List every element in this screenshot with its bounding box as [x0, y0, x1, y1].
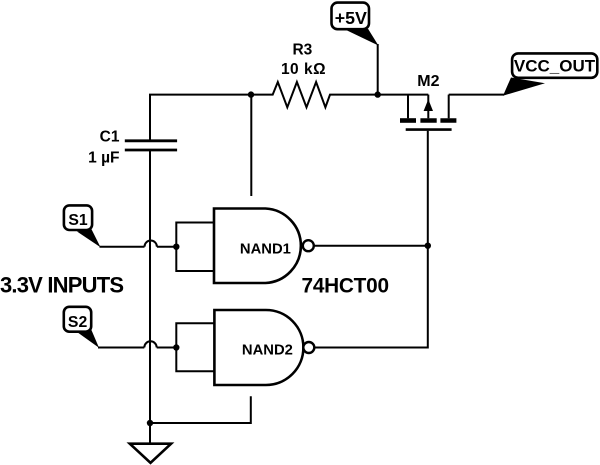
input flag S1	[64, 205, 101, 247]
drain terminal	[448, 95, 450, 119]
net flag VCC_OUT	[503, 53, 597, 95]
wire S2 to NAND2 inputs (with hop over vertical wire)	[98, 341, 176, 347]
NAND gate NAND1	[214, 209, 314, 284]
svg-text:1 µF: 1 µF	[88, 149, 119, 166]
svg-text:S2: S2	[68, 314, 88, 331]
wire ground node to ground symbol	[149, 423, 151, 444]
channel bars	[400, 118, 416, 123]
MOSFET M2	[378, 95, 457, 130]
wire NAND2 output up to gate node	[314, 246, 427, 348]
junction at ground node	[147, 420, 153, 426]
svg-text:10 kΩ: 10 kΩ	[281, 61, 326, 78]
body terminal with arrow	[427, 95, 429, 119]
NAND1 input tie bracket	[176, 223, 214, 272]
ground	[130, 444, 171, 463]
NAND2 input tie bracket	[176, 323, 214, 371]
wire +5V to node	[377, 44, 379, 95]
wire ground node to NAND2 GND pin	[150, 396, 251, 423]
NAND gate NAND2	[214, 310, 314, 385]
svg-text:VCC_OUT: VCC_OUT	[514, 57, 596, 76]
wire M2 drain to VCC_OUT	[449, 94, 504, 96]
wire C1 to ground junction	[149, 150, 151, 423]
wire NAND1 output to gate node	[314, 245, 428, 247]
junction at NAND2 input tie	[173, 344, 179, 350]
svg-text:M2: M2	[417, 73, 439, 90]
resistor R3	[251, 82, 378, 107]
junction at NAND1 input tie	[173, 244, 179, 250]
wire node to C1 corner	[150, 95, 251, 140]
svg-text:3.3V INPUTS: 3.3V INPUTS	[0, 272, 123, 297]
wire S1 to NAND1 inputs (with hop over vertical wire)	[100, 241, 177, 247]
junction at +5V node	[375, 91, 381, 97]
svg-text:C1: C1	[100, 128, 120, 145]
svg-text:R3: R3	[292, 41, 312, 58]
junction at R3 left node	[248, 91, 254, 97]
input flag S2	[64, 307, 99, 348]
junction at gate node	[425, 243, 431, 249]
svg-text:S1: S1	[68, 212, 88, 229]
wire node to NAND1 VCC pin	[250, 95, 252, 196]
svg-text:74HCT00: 74HCT00	[302, 274, 389, 297]
svg-text:NAND1: NAND1	[240, 241, 291, 257]
svg-text:+5V: +5V	[335, 8, 367, 28]
power flag +5V	[332, 3, 379, 46]
wire node to M2 source/body	[378, 94, 429, 96]
gate plate	[406, 128, 452, 131]
source terminal	[407, 95, 409, 119]
wire gate node to M2 gate	[427, 131, 429, 246]
svg-text:NAND2: NAND2	[242, 342, 293, 358]
capacitor C1	[125, 141, 177, 150]
